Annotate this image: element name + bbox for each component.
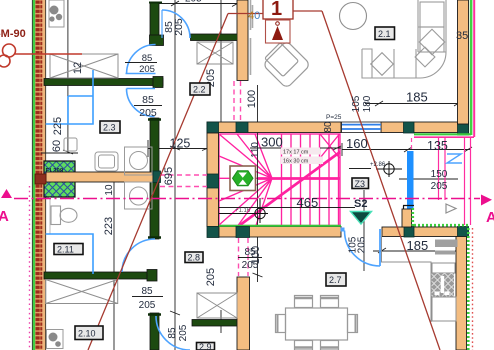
dim line y=149.5 for 160 135 [342,143,472,156]
green stub left of O1 [230,35,238,41]
bed X-box room 2.10 [46,280,118,304]
red squiggle [0,44,82,67]
red diagonal left [88,14,228,350]
elevator white triangles [239,173,248,185]
dim line vertical x=221 [220,0,222,333]
svg-text:150: 150 [431,169,448,180]
shower blue box [46,234,93,274]
svg-text:205: 205 [139,107,157,119]
svg-text:2.3: 2.3 [103,123,116,133]
room label Z3 [352,178,369,189]
door leaf A2a [126,73,156,75]
kitchen counter items left [64,138,118,171]
pink line under green [414,136,474,138]
svg-text:205: 205 [178,324,189,341]
svg-text:105: 105 [351,95,362,112]
svg-text:85: 85 [142,94,154,106]
dim line top y=3 [150,1,241,7]
teal column kitchen-right [458,227,469,238]
green wall G5 end cap [147,270,157,282]
svg-text:A: A [486,209,494,226]
svg-text:A: A [0,208,9,225]
kitchen top wall orange [382,227,468,237]
teal column stair left mid [207,174,219,188]
dim line vertical x=364 [363,190,365,271]
svg-text:17x 17 cm: 17x 17 cm [283,150,309,156]
dining table [276,296,358,350]
green wall G6 cap [148,313,161,316]
dim line y=148 for 300 [250,146,341,150]
svg-text:205: 205 [357,236,368,253]
door arc kitchen [345,231,381,267]
magenta section line A-A [14,198,480,200]
room label 2.8 [185,252,203,263]
dark red block at left wall junction [35,174,46,184]
left wall outline [32,0,45,350]
svg-text:205: 205 [431,181,448,192]
furniture plant top-left [49,0,64,27]
svg-text:695: 695 [163,167,175,185]
gray tile line bathroom [49,197,51,234]
green wall G1 caps [149,2,162,4]
green dotted line left of shaft [411,208,414,228]
right wall green line [470,0,473,135]
stair tiny text 17x17 [281,148,323,165]
stair left wall orange [207,133,219,227]
svg-text:2.10: 2.10 [78,329,96,339]
red marker box 1 [263,0,293,19]
black corner at shaft [403,206,414,210]
magenta arrow left [1,189,12,198]
bottom-center wall orange vertical [237,277,250,350]
svg-text:85: 85 [141,286,153,297]
pink dashed horizontals left of stair [160,175,207,187]
stair fan lines [219,134,272,226]
right wall pink line [473,0,475,137]
pink dashed pair above stair (O1 opening) [234,81,241,121]
svg-text:205: 205 [173,18,185,36]
dim line vertical x=68 [63,0,73,154]
teal column stair top-left [207,122,219,133]
svg-text:225: 225 [52,117,64,135]
svg-text:2.7: 2.7 [329,275,342,285]
door arc A2a upper [127,45,156,74]
svg-text:85: 85 [167,327,178,339]
room label 2.3 [100,121,120,133]
survey cross circle right [376,161,402,177]
svg-text:2.11: 2.11 [57,245,74,255]
svg-text:60: 60 [51,140,63,152]
door hinge blue square [341,228,345,232]
svg-text:135: 135 [427,139,448,153]
door swing marker gray triangle [446,204,456,213]
gray shelf line right of O1 [251,0,253,75]
stair top wall orange [207,122,341,133]
red marker triangle [272,26,283,40]
svg-text:2.2: 2.2 [193,85,206,95]
elevator box [230,166,256,191]
svg-text:300: 300 [261,135,283,150]
door arc A1 top [162,10,190,38]
left wall brick hatch [36,0,43,350]
red section line left horizontal [228,13,263,15]
teal stair direction triangle [351,212,372,225]
green line under top-right wall [414,133,471,135]
svg-text:S2: S2 [354,198,367,210]
svg-text:180: 180 [362,95,373,112]
svg-text:80: 80 [323,121,334,133]
dim line vertical x=257.5 [253,85,263,282]
green wall G4 vertical [150,118,159,239]
survey cross circle stair [219,198,268,223]
door leaf kitchen [379,229,381,266]
svg-text:100: 100 [246,90,258,108]
svg-text:2.8: 2.8 [188,253,201,263]
dim text 85/205 left pair [134,94,162,119]
green wall G1 vertical top [150,2,159,44]
pink dashed pair below stair [239,238,249,276]
red section line right horizontal [293,10,322,12]
svg-text:185: 185 [407,238,429,253]
svg-text:205: 205 [139,300,156,311]
dim text 105 180 rotated pair [351,95,373,112]
stair thick diagonal [240,152,340,225]
svg-text:125: 125 [170,137,191,151]
kitchen sink gray top [435,240,458,248]
pink dashed vertical at shaft left [411,138,413,150]
teal column kitchen-left [404,227,414,238]
orange wall O1 vertical top [237,0,248,81]
green line on stair bottom wall [219,225,341,227]
dim line vertical x=114 [109,176,119,350]
dim text 85 205 rotated bottom door [167,324,189,341]
dim text 85/205 lower-left pair [132,286,163,311]
door arc A2 lower [127,89,155,117]
left wall green edge line [33,0,36,350]
svg-text:12: 12 [72,62,84,74]
teal column stair top mid [236,122,248,133]
stove hatch right [432,273,455,297]
right exterior wall top orange [458,0,469,124]
teal column mid-left [153,171,161,183]
svg-text:2.9: 2.9 [199,342,212,350]
svg-text:205: 205 [139,64,155,75]
toilet room 2.11 [51,206,77,225]
svg-text:1: 1 [271,0,282,20]
green wall G2 horizontal [191,34,237,41]
pink shaft verticals [439,138,471,225]
room label 2.9 [197,342,215,350]
kitchen gray small [435,251,455,255]
magenta arrow right [481,195,492,206]
dim line y=251 for 185 kitchen [373,248,468,253]
elevator green hexagon [233,171,254,186]
mid-left tan wall [46,172,153,182]
X-box room 2.9 [197,293,237,318]
room label 2.10 [75,326,103,340]
green dotted line right of bottom wall [467,228,470,350]
svg-text:205: 205 [185,0,202,5]
room label 2.11 [54,244,83,255]
dim line y=153 short left [41,152,78,154]
dim line y=103.5 for 185 [365,101,462,106]
window in top wall [342,122,382,133]
svg-text:223: 223 [103,217,115,235]
stair interior pink hatch area [219,134,340,226]
door leaf A2 [127,88,156,90]
svg-text:160: 160 [346,136,368,151]
dim line vertical x=175 [170,0,180,350]
left exterior wall tan base [35,0,46,350]
dim text 85/205 upper pair [125,53,157,75]
door leaf A1 [161,10,163,38]
dim text 85 205 door A1 [163,18,185,36]
top wall right section orange [381,122,469,133]
right exterior wall bottom orange [456,237,467,350]
teal column stair bottom mid [236,227,250,238]
svg-text:35: 35 [456,30,468,42]
svg-text:205: 205 [205,268,217,286]
svg-text:2.1: 2.1 [378,29,391,39]
svg-text:40: 40 [248,10,260,22]
stair top-right X [320,134,340,158]
green wall G3 horizontal [44,79,163,86]
dim line y=179 for 150/205 [399,178,458,180]
green wall G6 vertical bottom [150,313,159,350]
green wall G7 horizontal bottom [192,320,237,327]
room label 2.2 [190,83,210,95]
lamp circle living room [340,3,367,30]
room label 2.7 [326,273,346,286]
dim text 105 205 rotated door kitchen [348,236,368,253]
svg-text:10: 10 [104,184,115,196]
magenta dotted line left of wall [29,186,31,350]
dim line y=148.5 for 125 [148,140,212,157]
svg-text:100: 100 [250,246,262,264]
corner sofa [362,0,446,78]
teal column stair bottom-left [207,227,219,238]
stair bottom wall orange [219,227,341,238]
kitchen wall stub vertical orange [402,209,412,227]
teal column top-right corner [458,122,469,135]
dim text 150/205 [431,169,448,192]
dim text 85/205 stair door [238,247,262,271]
dim line y=168.5 Z3 [349,168,371,170]
EL green box [44,161,75,197]
stair frame [219,134,340,226]
svg-text:185: 185 [406,90,428,105]
kitchen stove circles mid-left [125,147,153,209]
stair step verticals [282,134,339,226]
svg-text:110: 110 [250,142,261,158]
armchair rotated [260,38,310,88]
red diagonal right [322,11,440,350]
red dotted line right edge [472,228,474,350]
svg-text:+1.16: +1.16 [235,208,251,214]
blue pipe box top [46,70,93,124]
room label 2.1 [375,27,395,40]
green wall G3 end cap [153,77,163,88]
green wall G5 horizontal [44,272,155,279]
wardrobe X-box top-left [50,54,118,78]
green dotted line top of kitchen wall [414,224,468,227]
svg-text:-M-90: -M-90 [0,28,26,40]
blue Z mark [447,154,462,163]
stair mid landing line thick [258,177,340,180]
green wall G4 caps [148,120,161,238]
door arc A3 [122,239,155,272]
teal column top wall right [404,122,415,133]
svg-text:P=25: P=25 [326,114,342,121]
svg-text:Z3: Z3 [355,179,366,189]
svg-text:+2.86: +2.86 [370,162,386,168]
blue shaft bar [407,151,414,209]
red marker box 2 [266,20,291,43]
door arc A4 [156,316,190,350]
washer bottom-left [47,330,64,349]
kitchen counter right [382,237,457,323]
dim line y=207.5 long [218,207,355,209]
wardrobe X-box room 2.2 [197,42,233,64]
svg-text:465: 465 [297,195,319,210]
svg-text:16x 30 cm: 16x 30 cm [283,159,309,165]
